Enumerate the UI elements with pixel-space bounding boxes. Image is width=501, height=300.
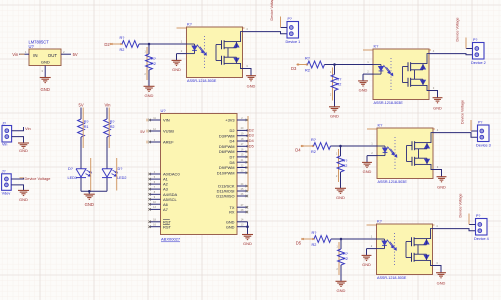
svg-text:U?: U? [161,108,167,113]
svg-text:ASSR-1218-503E: ASSR-1218-503E [377,276,407,280]
svg-text:Device 1: Device 1 [286,40,301,44]
pin 23 D10/PWM [217,170,248,176]
svg-text:Vin: Vin [12,52,19,57]
svg-text:R2: R2 [120,48,125,52]
tan net highlight at pulldown [338,149,340,182]
svg-text:R2: R2 [110,125,115,129]
svg-text:GND: GND [337,288,346,293]
svg-text:IN: IN [33,53,37,58]
ground symbol at pin 2 [362,255,372,260]
svg-text:5V: 5V [73,52,78,57]
svg-text:D3: D3 [291,66,297,71]
pin 12 VUSB [148,128,174,134]
pin 11 VIN [148,117,169,123]
pin 4 wire to device connector [433,224,476,231]
svg-text:R2: R2 [343,164,348,168]
pin 17 D5/PWM [219,143,249,149]
wire device voltage pin [471,130,478,132]
svg-text:GND: GND [362,262,371,267]
wire device voltage pin [281,27,288,29]
svg-text:R2: R2 [305,68,310,72]
tan net highlight line at R1 [82,108,84,149]
pin 16 D6/PWM [219,148,248,154]
svg-text:D9/PWM: D9/PWM [219,165,235,170]
pin 3 AREF [148,139,174,145]
svg-text:R?: R? [110,120,115,124]
designator D? and label LED1 [68,167,78,180]
svg-text:D4: D4 [249,138,255,143]
svg-text:D4: D4 [295,147,301,152]
svg-text:GND: GND [330,114,339,119]
ground symbol below pulldown 4 [336,281,347,286]
wire resistor R2 to LED [106,137,108,169]
connector J1 Vin input [2,126,12,143]
pin 7 A3 [148,186,168,192]
tan net highlight across relay top [367,128,435,130]
junction on LED ground bus [88,190,91,193]
tan riser Device Voltage [465,38,467,49]
tan highlighted wire D2 to resistor [110,43,123,45]
solid state relay K? ASSR-1218-503E (channel 1) [187,27,243,78]
LED D? LED1 [76,169,91,178]
svg-text:D5: D5 [296,240,302,245]
solid state relay K? ASSR-1218-503E (channel 2) [373,49,429,100]
svg-text:LED2: LED2 [117,176,127,180]
tan net highlight on Vin pin [20,53,25,55]
pin 2 (OUT) wire [61,50,71,54]
svg-text:GND: GND [226,224,235,229]
tan riser Device Voltage [470,120,472,131]
ground symbol at pin 2 [362,162,372,167]
svg-text:ASSR-1218-503E: ASSR-1218-503E [378,180,408,184]
svg-text:GND: GND [363,169,372,174]
wire Vin to resistor R2 [106,108,108,120]
LED D? LED2 [102,169,117,178]
pin 3 (GND) wire [41,66,45,78]
pin 4 wire to device connector [433,128,478,137]
svg-text:GND: GND [437,281,446,286]
svg-text:ABX00027: ABX00027 [161,237,181,242]
ground symbol at J1 [18,143,29,148]
connector P? Device 3 [478,125,490,142]
pin 1 [369,235,377,239]
pin 2 wire to ground [177,49,187,60]
resistor R2 (channel 4 series) [312,231,332,247]
svg-text:RST: RST [163,224,172,229]
resistor R2 (channel 3 pulldown) [336,146,347,178]
connector P? Device 4 [476,219,488,236]
pin 4 wire to device connector [243,27,288,34]
solid state relay K? ASSR-1218-503E (channel 4) [377,224,433,275]
svg-text:K?: K? [187,21,193,26]
wire resistor to ASSR pin 1 [331,145,378,147]
svg-text:K?: K? [378,122,384,127]
junction at GND pins [246,225,249,228]
svg-text:OUT: OUT [48,53,58,58]
wire J2 pin1 to Device Voltage net [11,178,23,179]
svg-text:K?: K? [374,43,380,48]
tan net highlight line at LED1 [90,158,92,191]
svg-text:AREF: AREF [163,140,174,145]
pin 3 wire to ground [433,165,442,176]
tan net highlight line right of MCU [247,116,249,191]
pin 1 (IN) wire [19,50,29,54]
ground symbol at pin 3 [437,177,447,182]
svg-text:U?: U? [29,44,35,49]
tan net highlight at pulldown [332,68,334,101]
ground symbol below pulldown 1 [144,86,155,91]
ground symbol for LEDs [84,194,95,199]
svg-text:ASSR-1218-503E: ASSR-1218-503E [374,101,404,105]
pin 1 [369,142,377,146]
svg-text:R?: R? [151,57,156,61]
svg-text:Device Voltage: Device Voltage [461,100,465,124]
wire device voltage pin [466,48,473,50]
tan highlighted wire D4 to resistor [301,145,314,147]
pin 15 D7 [230,154,249,160]
wire 5V to resistor R1 [80,108,82,120]
pin 10 A6 [148,201,168,207]
svg-text:R1: R1 [84,125,89,129]
svg-text:GND: GND [172,67,181,72]
svg-text:RX: RX [229,210,235,215]
junction node channel 4 [340,238,343,241]
ground bus wire for LEDs [81,190,107,192]
svg-text:R2: R2 [312,243,317,247]
svg-text:D12/MISO: D12/MISO [216,194,234,199]
svg-text:D3: D3 [249,133,255,138]
tan tick at J2 pin1 [20,177,24,179]
svg-text:D3/PWM: D3/PWM [219,133,235,138]
svg-text:R2: R2 [337,82,342,86]
solid state relay K? ASSR-1218-503E (channel 3) [377,128,433,179]
pin 18 RST [148,219,171,225]
svg-text:D2: D2 [249,127,255,132]
resistor R1 [78,119,89,137]
wire J1 pin1 to Vin net [12,127,24,131]
ground symbol at pin 3 [433,98,443,103]
svg-text:Vdev: Vdev [2,192,11,196]
wire GND pins [247,222,249,234]
svg-text:D7: D7 [230,155,235,160]
pin 3 wire to ground [243,64,252,75]
pin 8 A4/SDA [148,191,177,197]
wire J2 pin2 to ground [11,185,23,190]
svg-text:Device Voltage: Device Voltage [456,18,460,42]
svg-text:D4: D4 [230,139,236,144]
net labels D2 D3 D4 D5 [249,127,255,148]
pin 9 A5/SCL [148,196,177,202]
wire device voltage pin [469,224,476,226]
pin 1 [365,60,373,64]
svg-text:D?: D? [68,167,73,171]
pin 18 D4 [230,138,249,144]
svg-text:Vin: Vin [105,103,112,108]
svg-text:D?: D? [118,167,123,171]
pin 21 D8 [230,159,249,165]
svg-text:Device Voltage: Device Voltage [270,0,274,21]
svg-text:D8: D8 [230,160,235,165]
resistor R2 (channel 3 series) [311,138,331,154]
wire resistor to ASSR pin 1 [325,64,374,66]
svg-text:GND: GND [437,185,446,190]
wire LED LED2 to ground bus [106,178,108,191]
svg-text:D2: D2 [104,42,110,47]
svg-text:Device Voltage: Device Voltage [25,176,51,181]
tan net highlight at pulldown [338,242,340,275]
tan net highlight across relay top [367,224,435,226]
ground symbol below U1 [40,78,51,83]
svg-text:Device 4: Device 4 [474,237,489,241]
tan highlighted wire D3 to resistor [297,64,309,66]
pin 19 D3/PWM [219,133,249,139]
svg-text:GND: GND [433,106,442,111]
pin 1 [179,40,187,44]
pin 26 D12/MISO [216,193,248,199]
resistor R2 (channel 4 pulldown) [336,239,347,271]
pin 3 wire to ground [433,261,442,272]
pin 5 A1 [148,176,168,182]
value label ABX00027 [161,237,181,242]
connector P? Device 1 [287,22,299,39]
pin 4 A0/DAC0 [148,171,180,177]
pin 27 TX [230,204,249,210]
svg-text:R?: R? [120,36,125,40]
svg-text:GND: GND [243,241,252,246]
tan net highlight across relay top [363,49,431,51]
svg-text:K?: K? [377,218,383,223]
pin 3 wire to ground [429,86,438,97]
svg-text:GND: GND [41,87,50,92]
wire resistor R1 to LED [80,137,82,169]
ground symbol at J2 [18,190,29,195]
svg-text:GND: GND [359,88,368,93]
wire pulldown to ground [148,70,150,86]
resistor R2 (channel 2 series) [305,56,325,72]
svg-text:P?: P? [476,214,480,218]
svg-text:Vin: Vin [25,126,31,131]
svg-text:VIN: VIN [163,118,170,123]
svg-text:R?: R? [311,138,316,142]
ground symbol below pulldown 3 [335,188,346,193]
svg-text:A7: A7 [163,207,169,212]
pin 24 D13/SCK [218,183,248,189]
ground symbol below pulldown 2 [329,107,340,112]
wire junction to ground [88,191,90,194]
junction node channel 1 [148,43,151,46]
wire resistor to ASSR pin 1 [139,43,187,45]
ground symbol at pin 2 [358,81,368,86]
resistor R2 (channel 2 pulldown) [330,65,341,97]
svg-text:GND: GND [247,84,256,89]
svg-text:GND: GND [19,148,28,153]
resistor R2 [104,119,115,137]
voltage regulator U1 LM7805CT [29,49,61,66]
pin 13 GND [226,224,248,230]
svg-text:R?: R? [312,231,317,235]
ground symbol at pin 2 [172,60,182,65]
wire resistor to ASSR pin 1 [331,238,377,240]
svg-text:R2: R2 [311,150,316,154]
svg-text:LED1: LED1 [68,176,78,180]
svg-text:D5/PWM: D5/PWM [219,144,235,149]
svg-text:J?: J? [2,121,6,125]
ground symbol at pin 3 [246,76,256,81]
pin 6 A2 [148,181,168,187]
wire LED LED1 to ground bus [80,178,82,191]
svg-text:P?: P? [288,17,292,21]
svg-text:R?: R? [343,159,348,163]
svg-text:Vin: Vin [2,143,7,147]
pin 16 RST [148,224,171,230]
pin 20 D2 [230,127,249,133]
pin 13 A7 [148,206,168,212]
junction node channel 3 [339,145,342,148]
connector P? Device 2 [473,43,485,60]
pin 2 wire to ground [367,151,377,162]
wire pulldown to ground [334,91,336,107]
svg-text:D10/PWM: D10/PWM [217,170,235,175]
svg-text:Device 3: Device 3 [476,144,491,148]
svg-text:5V: 5V [79,103,84,108]
svg-text:Device 2: Device 2 [471,61,486,65]
ground symbol at pin 3 [436,273,446,278]
tan net highlight line at LED2 [116,158,118,191]
tan net highlight line at R2 [108,108,110,149]
pin 2 +3V3 [225,117,248,123]
resistor R2 (channel 1 pulldown) [144,44,155,76]
svg-text:R2: R2 [343,257,348,261]
tan highlighted wire D5 to resistor [301,238,314,240]
svg-text:GND: GND [336,195,345,200]
svg-text:GND: GND [145,93,154,98]
svg-text:D2: D2 [230,128,235,133]
svg-text:P?: P? [473,38,477,42]
tan riser Device Voltage [468,214,470,225]
designator D? and label LED2 [117,167,127,180]
tan riser Device Voltage [280,17,282,28]
svg-text:R?: R? [337,78,342,82]
wire J1 pin2 to ground [12,137,24,143]
tan net highlight at pulldown [146,47,148,80]
svg-text:D6/PWM: D6/PWM [219,149,235,154]
svg-text:VUSB: VUSB [163,129,174,134]
ground symbol below MCU [242,235,253,240]
svg-text:D5: D5 [249,143,255,148]
pin 2 wire to ground [367,244,377,255]
wire pulldown to ground [340,265,342,281]
resistor R2 (channel 1 series) [120,36,140,52]
svg-text:Device Voltage: Device Voltage [459,194,463,218]
pin 28 RX [229,209,248,215]
junction node channel 2 [333,63,336,66]
svg-text:GND: GND [85,202,94,207]
svg-text:R2: R2 [151,62,156,66]
svg-text:GND: GND [41,59,50,64]
svg-text:R?: R? [305,56,310,60]
svg-text:J?: J? [2,170,6,174]
tan highlight ticks on VIN/VUSB/AREF pins [146,119,148,144]
pin 25 D11/MOSI [217,188,249,194]
pin 4 wire to device connector [429,49,473,55]
wire pulldown to ground [340,172,342,188]
pin 14 GND [226,219,248,225]
svg-text:R?: R? [84,120,89,124]
svg-text:ASSR-1218-503E: ASSR-1218-503E [187,79,217,83]
svg-text:GND: GND [19,197,28,202]
pin 2 wire to ground [363,70,373,81]
svg-text:5V: 5V [140,129,145,134]
connector J2 device voltage input [2,174,12,191]
svg-text:+3V3: +3V3 [225,118,234,123]
microcontroller U? ABX00027 (Arduino Nano 33 IoT) [161,114,238,235]
svg-text:R?: R? [343,252,348,256]
svg-text:P?: P? [478,120,482,124]
tan net highlight across relay top [177,27,245,29]
pin 22 D9/PWM [219,164,248,170]
